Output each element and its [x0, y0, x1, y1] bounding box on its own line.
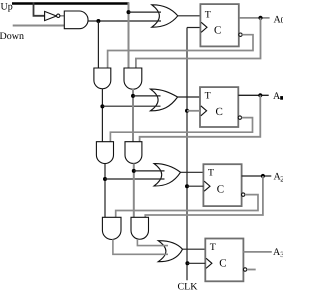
node junction dot CLK tap FF1 [185, 109, 189, 113]
or-gate O0 [152, 5, 178, 27]
svg-text:T: T [205, 9, 211, 20]
FF3 Qbar bubble [243, 268, 246, 271]
and-gate g3a (down chain stage 3) [96, 142, 113, 164]
inverter (NOT gate on Up) [45, 11, 57, 20]
node junction dot g3b output tee [132, 169, 136, 173]
and-gate G1 (Down AND not-Up) [64, 11, 88, 29]
wire g3a tee to OR O2 lower input [105, 178, 165, 180]
and-gate g4b (up chain stage 4) [131, 217, 149, 239]
wire O3 output to FF3 T input [183, 248, 206, 250]
wire FF1 Q output to A1 [238, 94, 268, 96]
wire O2 output to FF2 T input [181, 171, 204, 173]
wire CLK tap to FF3 clock [187, 262, 205, 264]
node junction dot g2a output tee [100, 104, 104, 108]
FF1 Qbar bubble [238, 116, 241, 119]
svg-text:A: A [273, 91, 281, 102]
node junction dot Up tee to OR O0 [127, 10, 131, 14]
FF0 clock wedge [201, 22, 207, 32]
wire inverter output to AND G1 [60, 15, 65, 17]
wire FF2 Qbar loop to gate g4a [116, 195, 258, 218]
and-gate g2a (down chain stage 2) [94, 68, 111, 89]
wire Up top bus [12, 2, 129, 4]
inverter bubble [57, 14, 60, 17]
wire g3b tee to OR O2 upper input [134, 170, 165, 172]
svg-text:0: 0 [281, 15, 283, 25]
or-gate O2 [154, 164, 181, 186]
wire FF0 Qbar loop to gate g2a [108, 35, 253, 69]
wire FF3 Q output to A3 [243, 251, 271, 253]
svg-text:Up: Up [1, 1, 13, 12]
flip-flop U0 box [200, 4, 238, 46]
svg-text:C: C [214, 24, 221, 36]
or-gate O1 [150, 89, 177, 111]
wire FF0 Q output to A0 [240, 17, 270, 19]
and-gate g4a (down chain stage 4) [102, 217, 121, 239]
wire CLK vertical line [186, 28, 188, 281]
FF2 Qbar bubble [242, 193, 245, 196]
wire Up tee to OR O0 upper input [129, 11, 162, 13]
FF2 clock wedge [204, 181, 210, 191]
FF1 clock wedge [201, 106, 207, 116]
wire Up chain vertical to gate g2b [128, 2, 130, 68]
wire g2a tee to OR O1 lower input [102, 105, 160, 107]
wire A2 feed to gate g4b [145, 176, 263, 218]
wire FF1 Qbar loop to gate g3a [110, 118, 252, 143]
svg-text:CLK: CLK [178, 282, 199, 291]
node junction dot on G1 output (down-chain tap) [96, 19, 100, 23]
wire Up drop to inverter [34, 3, 45, 16]
wire g2b tee to OR O1 upper input [133, 95, 161, 97]
svg-text:C: C [219, 257, 226, 269]
or-gate O3 [158, 241, 182, 262]
node junction dot A0 [258, 16, 262, 20]
wire FF2 Q output to A2 [242, 175, 272, 177]
node junction dot g3a output tee [103, 177, 107, 181]
wire CLK tap to FF1 clock [187, 110, 200, 112]
flip-flop U3 box [205, 239, 243, 282]
wire down-chain vertical to gate g2a [97, 21, 99, 69]
wire g4b output to OR O3 upper input [137, 239, 168, 246]
wire O0 output to FF0 T input [178, 15, 201, 17]
svg-text:C: C [216, 106, 223, 118]
wire G1 output to OR O0 lower input [88, 20, 161, 22]
wire g3b output up-chain to g4b [133, 163, 135, 217]
svg-text:2: 2 [280, 175, 283, 184]
and-gate g3b (up chain stage 3) [125, 142, 142, 164]
flip-flop U2 box [203, 164, 241, 206]
FF0 Qbar bubble [239, 33, 242, 36]
wire g2b output up-chain to g3b [132, 89, 134, 142]
wire A1 feed to gate g3b [140, 95, 261, 142]
wire FF3 Qbar stub [247, 269, 256, 271]
node junction dot A2 [261, 174, 265, 178]
wire O1 output to FF1 T input [178, 96, 200, 98]
wire Down input [13, 25, 65, 27]
svg-text:T: T [210, 242, 216, 253]
wire CLK tap to FF0 clock [187, 27, 200, 29]
wire g4a output to OR O3 lower input [113, 239, 168, 254]
svg-text:T: T [205, 90, 211, 101]
svg-text:3: 3 [280, 250, 283, 259]
svg-text:T: T [208, 168, 214, 179]
flip-flop U1 box [200, 87, 238, 127]
FF3 clock wedge [206, 258, 212, 268]
node junction dot CLK tap FF2 [185, 184, 189, 188]
wire g3a output down-chain to g4a [104, 163, 106, 217]
and-gate g2b (up chain stage 2) [124, 68, 142, 89]
wire CLK tap to FF2 clock [187, 185, 203, 187]
svg-text:Down: Down [0, 31, 24, 42]
svg-text:C: C [217, 184, 224, 196]
wire A0 feed to gate g2b [136, 18, 261, 69]
node junction dot CLK tap FF3 [185, 261, 189, 265]
node junction dot A1 [258, 93, 262, 97]
node junction dot g2b output tee [131, 94, 135, 98]
wire g2a output down-chain to g3a [101, 89, 103, 142]
